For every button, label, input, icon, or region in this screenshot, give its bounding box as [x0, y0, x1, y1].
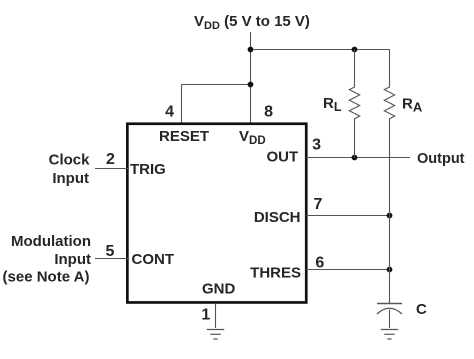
svg-text:C: C — [416, 301, 427, 318]
junction pin-4 branch — [248, 82, 254, 88]
svg-text:7: 7 — [314, 196, 323, 213]
svg-text:RESET: RESET — [159, 128, 209, 145]
svg-text:Input: Input — [52, 170, 89, 187]
wire pin 7 DISCH — [306, 215, 390, 217]
svg-text:Output: Output — [417, 151, 465, 167]
junction RA/DISCH — [387, 213, 393, 219]
wire top rail to resistors — [251, 49, 391, 51]
wire pin 3 OUT to Output — [306, 157, 410, 159]
junction RL top — [352, 47, 358, 53]
IC U1 555 timer body — [127, 124, 306, 303]
ground symbol at capacitor — [381, 330, 398, 340]
wire pin 6 THRES — [306, 269, 390, 271]
ground symbol at pin 1 — [207, 330, 224, 340]
wire pin 4 vertical drop — [181, 85, 183, 125]
svg-text:Input: Input — [54, 251, 91, 268]
svg-text:(see Note A): (see Note A) — [3, 269, 90, 286]
svg-text:Clock: Clock — [49, 152, 91, 169]
resistor RL — [349, 50, 359, 158]
wire jog to pin 4 horizontal — [182, 84, 251, 86]
junction THRES/cap — [387, 267, 393, 273]
svg-text:TRIG: TRIG — [130, 161, 166, 178]
svg-text:3: 3 — [312, 137, 321, 154]
svg-text:2: 2 — [106, 151, 115, 168]
wire capacitor to ground — [389, 310, 391, 329]
svg-text:DISCH: DISCH — [254, 209, 301, 226]
junction VDD rail split — [248, 47, 254, 53]
svg-text:Modulation: Modulation — [11, 233, 91, 250]
resistor RA — [384, 50, 394, 304]
svg-text:4: 4 — [165, 104, 174, 121]
svg-text:8: 8 — [264, 104, 273, 121]
capacitor C — [377, 304, 402, 315]
junction RL bottom on OUT wire — [352, 155, 358, 161]
svg-text:6: 6 — [315, 254, 324, 271]
wire pin 1 GND drop — [215, 303, 217, 328]
svg-text:OUT: OUT — [267, 149, 299, 166]
svg-text:THRES: THRES — [250, 265, 301, 282]
svg-text:CONT: CONT — [132, 251, 175, 268]
wire VDD stem down from label — [250, 32, 252, 124]
svg-text:1: 1 — [201, 307, 210, 324]
svg-text:GND: GND — [202, 281, 236, 298]
wire pin 5 CONT input — [95, 258, 128, 260]
svg-text:5: 5 — [106, 243, 115, 260]
wire pin 2 TRIG input — [95, 168, 128, 170]
